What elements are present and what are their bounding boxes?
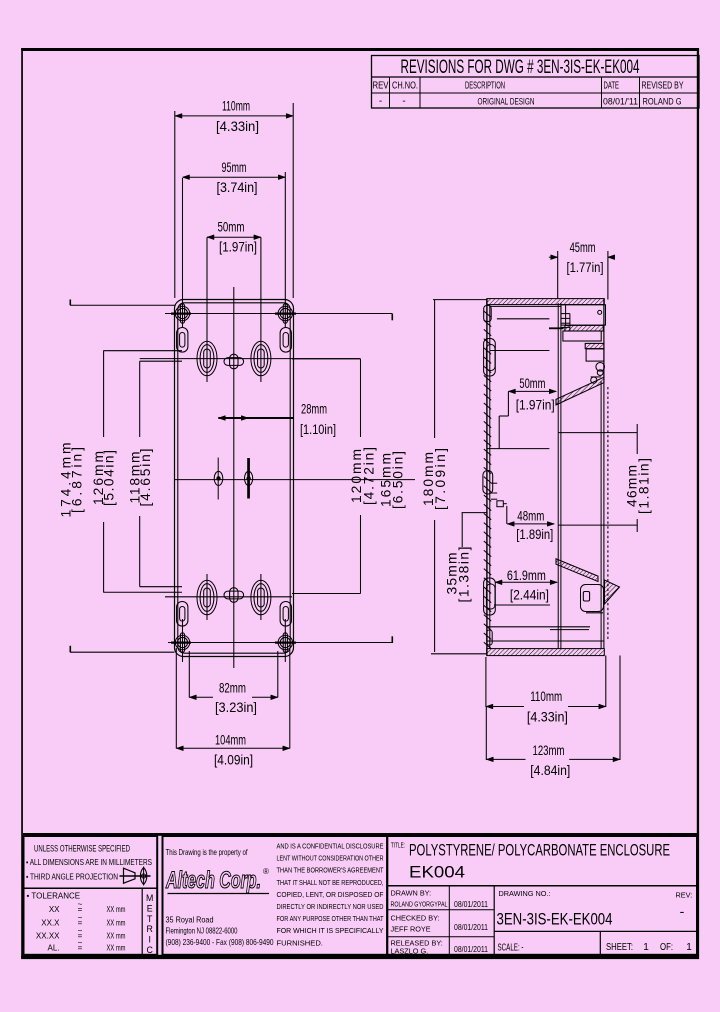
- svg-text:REV: REV: [373, 81, 389, 92]
- dimension 120mm bottom extension: [292, 593, 361, 595]
- revisions table column line REVISED BY: [639, 77, 641, 108]
- lower oval horizontal centerline: [165, 596, 292, 598]
- svg-text:110mm: 110mm: [222, 99, 250, 114]
- title box row line scale: [494, 930, 697, 932]
- svg-text:I: I: [148, 935, 150, 945]
- bottom boss centerline right vertical: [284, 619, 286, 662]
- svg-text:E: E: [147, 903, 153, 913]
- section interior leader line 2: [490, 350, 550, 352]
- svg-text:28mm: 28mm: [301, 402, 327, 417]
- svg-text:®: ®: [263, 867, 269, 876]
- svg-text:[2.44in]: [2.44in]: [510, 588, 549, 603]
- svg-text:T: T: [147, 914, 153, 924]
- dimension 50mm section line: [508, 390, 556, 392]
- svg-text:DATE: DATE: [604, 81, 620, 92]
- side ear upper-right slot: [283, 333, 288, 348]
- section interior stub line: [549, 327, 564, 329]
- revisions table title row line: [372, 76, 700, 78]
- dimension 110mm line: [175, 115, 293, 117]
- svg-text:TITLE:: TITLE:: [391, 843, 405, 850]
- section wall rib tick 3: [491, 498, 497, 500]
- dimension 45mm right extension: [607, 251, 609, 300]
- dimension 180mm line lower segment: [434, 520, 436, 652]
- svg-text:UNLESS OTHERWISE SPECIFIED: UNLESS OTHERWISE SPECIFIED: [34, 844, 130, 855]
- section bottom interior line 2: [487, 640, 604, 642]
- svg-text:XX.XX: XX.XX: [36, 932, 60, 941]
- dimension 165mm bottom tick: [391, 636, 393, 643]
- section interior mid line left step: [498, 416, 500, 449]
- svg-text:61.9mm: 61.9mm: [507, 568, 546, 583]
- top bosses horizontal centerline: [165, 313, 392, 315]
- side ear lower-left slot: [180, 607, 185, 622]
- dimension 45mm line left segment: [549, 256, 558, 258]
- section funnel lower slope hatched: [556, 559, 598, 582]
- dimension 174.4mm bottom extension: [70, 651, 175, 653]
- svg-text:(908) 236-9400 - Fax (908) 806: (908) 236-9400 - Fax (908) 806-9490: [166, 937, 274, 947]
- dimension 118mm top extension: [140, 360, 182, 362]
- svg-text:ROLAND GYORGYPAL: ROLAND GYORGYPAL: [391, 900, 448, 909]
- svg-text:50mm: 50mm: [218, 220, 245, 235]
- svg-text:[3.23in]: [3.23in]: [215, 700, 257, 715]
- svg-text:35 Royal Road: 35 Royal Road: [166, 915, 214, 925]
- section interior top box inner line: [565, 305, 567, 325]
- center hole left vertical line: [217, 458, 219, 500]
- top-right boss thick tick: [275, 313, 296, 315]
- dimension 46mm line upper segment: [636, 424, 638, 454]
- dimension 45mm line right segment: [608, 256, 615, 258]
- left view outer outline: [175, 300, 294, 657]
- svg-text:XX mm: XX mm: [107, 932, 126, 941]
- company box outline: [163, 836, 388, 955]
- svg-text:3EN-3IS-EK-EK004: 3EN-3IS-EK-EK004: [497, 911, 613, 929]
- dimension 48mm leader bracket: [497, 501, 503, 507]
- svg-text:• TOLERANCE: • TOLERANCE: [27, 892, 81, 901]
- border frame right: [697, 48, 699, 959]
- svg-text:FURNISHED.: FURNISHED.: [277, 938, 323, 947]
- dimension 126mm line upper segment: [103, 351, 105, 437]
- dimension 50mm section jog horizontal: [499, 415, 508, 417]
- upper oval left vertical centerline: [206, 237, 208, 382]
- svg-text:Altech Corp.: Altech Corp.: [165, 867, 261, 894]
- dimension 82mm right extension: [277, 651, 279, 698]
- svg-text:CH.NO.: CH.NO.: [392, 81, 418, 92]
- section cover right wall upper outer: [603, 299, 605, 381]
- section base right wall inner line: [557, 303, 559, 649]
- svg-text:[4.65in]: [4.65in]: [138, 449, 153, 507]
- center hole right dot: [247, 477, 250, 480]
- svg-text:• ALL DIMENSIONS ARE IN MILLIM: • ALL DIMENSIONS ARE IN MILLIMETERS: [26, 857, 152, 867]
- top boss centerline right vertical: [284, 172, 286, 327]
- svg-text:• THIRD ANGLE PROJECTION: • THIRD ANGLE PROJECTION: [26, 872, 118, 882]
- section bottom wall hatched band: [487, 649, 605, 656]
- section latch detail circle: [591, 377, 597, 383]
- title block top bar: [23, 833, 697, 836]
- oval hole upper-left slot: [204, 349, 211, 368]
- svg-text:[4.09in]: [4.09in]: [214, 753, 253, 768]
- svg-text:[1.89in]: [1.89in]: [516, 527, 553, 542]
- svg-text:THAN THE BORROWER'S AGREEMENT: THAN THE BORROWER'S AGREEMENT: [277, 866, 384, 875]
- top-left boss thick tick: [171, 313, 191, 315]
- svg-text:[4.33in]: [4.33in]: [527, 710, 568, 725]
- section top wall underside line: [490, 305, 561, 307]
- svg-text:[3.74in]: [3.74in]: [217, 180, 258, 195]
- section bottom interior line 3: [550, 629, 589, 631]
- section interior box D: [586, 349, 604, 361]
- dimension 118mm bottom extension: [140, 586, 182, 588]
- corner screw boss top-right slot: [283, 304, 287, 323]
- corner screw boss bottom-right slot: [283, 633, 287, 652]
- revisions table column line DATE: [601, 77, 603, 108]
- dimension 48mm leader vertical: [506, 506, 508, 524]
- section left wall upper DIN clip outer: [484, 339, 496, 377]
- side ear upper-right outer: [280, 328, 291, 353]
- svg-text:[1.97in]: [1.97in]: [516, 398, 555, 413]
- dimension 174.4mm top extension: [70, 304, 175, 306]
- svg-text:XX mm: XX mm: [107, 919, 126, 928]
- dimension 82mm left extension: [188, 651, 190, 698]
- svg-text:[1.77in]: [1.77in]: [567, 260, 604, 275]
- oval hole upper-left inner ellipse: [200, 345, 214, 373]
- svg-text:08/01/2011: 08/01/2011: [454, 945, 488, 954]
- svg-text:ORIGINAL DESIGN: ORIGINAL DESIGN: [478, 97, 535, 108]
- dimension 126mm top extension: [103, 350, 182, 352]
- section hatched shelf band: [565, 325, 603, 331]
- dimension 35mm extension horizontal: [462, 512, 487, 514]
- dimension 46mm line lower segment: [636, 519, 638, 532]
- title box row line drawn/checked: [387, 909, 494, 911]
- dimension 82mm line left segment: [189, 696, 213, 698]
- dimension 110mm section line right segment: [568, 706, 606, 708]
- tolerance section outer box: [24, 836, 158, 955]
- tolerance metric divider vertical: [141, 888, 143, 955]
- dimension 110mm section left extension: [485, 657, 487, 707]
- left view vertical centerline: [233, 287, 235, 668]
- corner screw boss bottom-left inner circle: [177, 637, 187, 647]
- svg-text:REV:: REV:: [676, 891, 693, 900]
- border frame bottom: [21, 955, 699, 959]
- section top wall hatched band: [487, 299, 605, 305]
- section left wall lower DIN clip inner: [486, 584, 495, 609]
- dimension 180mm top extension: [433, 299, 487, 301]
- title box drawing no divider: [493, 886, 495, 955]
- svg-text:EK004: EK004: [409, 863, 465, 882]
- svg-text:104mm: 104mm: [215, 733, 246, 748]
- dimension 120mm top extension: [292, 358, 361, 360]
- projection symbol target inner circle: [142, 874, 146, 878]
- projection symbol cone: [124, 868, 136, 883]
- svg-text:COPIED, LENT, OR DISPOSED OF: COPIED, LENT, OR DISPOSED OF: [277, 890, 384, 899]
- lower oval left vertical centerline: [206, 574, 208, 620]
- svg-text:C: C: [147, 945, 154, 955]
- title box divider under title: [387, 885, 697, 887]
- section base right wall second line: [560, 303, 562, 649]
- svg-text:-: -: [680, 903, 685, 919]
- svg-text:M: M: [146, 893, 153, 903]
- center hole right ellipse: [245, 471, 253, 485]
- section left wall top clip bump: [484, 306, 492, 322]
- svg-text:1: 1: [643, 942, 649, 953]
- dimension 104mm line: [176, 747, 289, 749]
- dimension 174.4mm top tick: [69, 300, 71, 306]
- oval hole lower-right slot: [258, 588, 265, 607]
- oval hole lower-left slot: [204, 588, 211, 607]
- corner screw boss bottom-right outer circle: [278, 635, 292, 649]
- corner screw boss top-left slot: [180, 304, 184, 323]
- svg-text:08/01/2011: 08/01/2011: [454, 923, 488, 932]
- section funnel upper slope hatched: [556, 377, 604, 405]
- side ear lower-right outer: [280, 602, 291, 627]
- svg-text:LASZLO G.: LASZLO G.: [391, 947, 429, 956]
- left view inner outline: [178, 303, 290, 653]
- oval hole upper-right outer ellipse: [251, 341, 271, 376]
- dimension 104mm right extension: [289, 648, 291, 749]
- center hole left ellipse: [214, 471, 223, 485]
- side ear upper-left slot: [180, 333, 185, 348]
- center cross upper vertical lobe: [230, 354, 238, 369]
- section ladder rung 1: [562, 313, 571, 315]
- dimension 104mm left extension: [175, 648, 177, 749]
- projection symbol vesica: [140, 868, 146, 885]
- svg-text:XX mm: XX mm: [107, 944, 126, 953]
- section wall rib tick 2: [491, 492, 497, 494]
- dimension 48mm line: [507, 523, 554, 525]
- section bottom interior line 4: [494, 604, 550, 606]
- section latch detail top line: [591, 376, 602, 378]
- dimension 28mm line: [218, 417, 293, 419]
- title box names date divider: [448, 886, 450, 955]
- svg-text:OF:: OF:: [660, 942, 673, 953]
- svg-text:95mm: 95mm: [222, 160, 247, 175]
- section left wall hatch ticks: [484, 311, 491, 649]
- svg-text:POLYSTYRENE/ POLYCARBONATE ENC: POLYSTYRENE/ POLYCARBONATE ENCLOSURE: [409, 841, 670, 860]
- svg-text:DIRECTLY OR INDIRECTLY NOR USE: DIRECTLY OR INDIRECTLY NOR USED: [277, 902, 384, 911]
- svg-text:110mm: 110mm: [530, 689, 562, 704]
- dimension 174.4mm bottom tick: [69, 646, 71, 652]
- svg-text:123mm: 123mm: [533, 743, 565, 758]
- svg-text:48mm: 48mm: [517, 509, 544, 524]
- revisions table outline: [372, 56, 700, 109]
- corner screw boss top-right outer circle: [278, 306, 292, 320]
- section left wall upper DIN clip inner: [486, 345, 495, 371]
- svg-text:[4.33in]: [4.33in]: [216, 119, 259, 134]
- dimension 95mm line: [183, 176, 286, 178]
- section DIN hook wedge hatched: [605, 580, 620, 604]
- center cross upper horizontal lobe: [224, 358, 244, 366]
- side ear lower-right slot: [283, 607, 288, 622]
- dimension 61.9mm line: [495, 581, 557, 583]
- svg-text:82mm: 82mm: [219, 681, 246, 696]
- bottom-left boss thick tick: [171, 641, 191, 643]
- corner screw boss bottom-left slot: [180, 633, 184, 652]
- oval hole upper-right inner ellipse: [254, 345, 268, 373]
- svg-text:1: 1: [686, 942, 692, 953]
- dimension 50mm section jog vertical: [507, 391, 509, 416]
- section interior leader line 1: [497, 318, 550, 320]
- svg-text:LENT WITHOUT CONSIDERATION OTH: LENT WITHOUT CONSIDERATION OTHER: [277, 854, 384, 863]
- dimension 126mm line lower segment: [103, 522, 105, 592]
- corner screw boss top-right inner circle: [280, 308, 290, 318]
- svg-text:[4.84in]: [4.84in]: [530, 763, 570, 778]
- dimension 45mm left extension: [557, 251, 559, 299]
- revisions table column line CH.NO.: [419, 77, 421, 108]
- section hatched step: [585, 343, 604, 348]
- corner screw boss bottom-left outer circle: [175, 635, 189, 649]
- section ladder rung 4: [562, 326, 571, 328]
- svg-text:THAT IT SHALL NOT BE REPRODUCE: THAT IT SHALL NOT BE REPRODUCED,: [277, 878, 384, 887]
- oval hole lower-left outer ellipse: [197, 580, 217, 615]
- svg-text:REVISED BY: REVISED BY: [642, 81, 684, 92]
- side ear lower-left outer: [177, 602, 188, 627]
- dimension 46mm top extension: [558, 432, 637, 434]
- title box outline: [387, 836, 697, 955]
- section interior mid line: [487, 448, 549, 450]
- section screw head inner circle: [597, 370, 603, 376]
- dimension 110mm section right extension: [605, 656, 607, 708]
- dimension 118mm line upper segment: [139, 361, 141, 437]
- dimension 110mm section line left segment: [486, 706, 524, 708]
- upper oval horizontal centerline: [140, 358, 361, 360]
- revisions table header row line: [372, 92, 700, 94]
- svg-text:ROLAND G: ROLAND G: [643, 97, 682, 108]
- top boss centerline left vertical: [182, 178, 184, 327]
- center hole left dot: [217, 477, 220, 480]
- svg-text:CHECKED BY:: CHECKED BY:: [391, 914, 440, 923]
- section left wall inner line: [489, 305, 491, 649]
- center cross lower vertical lobe: [230, 588, 238, 603]
- dimension 123mm line right segment: [569, 758, 620, 760]
- dimension 50mm line: [207, 236, 261, 238]
- section bottom interior line 1: [487, 626, 590, 628]
- section DIN hook window: [583, 592, 589, 602]
- projection symbol axis line: [120, 875, 151, 877]
- dimension 110mm right extension: [292, 103, 294, 298]
- section ladder rung 2: [562, 317, 571, 319]
- svg-text:08/01/2011: 08/01/2011: [454, 900, 488, 909]
- oval hole lower-right outer ellipse: [251, 580, 271, 615]
- dimension 48mm leader horizontal: [503, 503, 507, 505]
- section left wall middle clip: [483, 471, 493, 495]
- svg-text:AND IS A CONFIDENTIAL DISCLOSU: AND IS A CONFIDENTIAL DISCLOSURE: [277, 842, 384, 851]
- dimension 46mm bottom extension: [558, 524, 637, 526]
- dimension 82mm line right segment: [252, 696, 278, 698]
- svg-text:-: -: [379, 96, 382, 107]
- section left wall lower DIN clip outer: [484, 578, 496, 615]
- section ladder vertical: [569, 314, 571, 331]
- svg-text:45mm: 45mm: [570, 240, 596, 255]
- dimension 165mm top tick: [391, 314, 393, 321]
- svg-text:FOR WHICH IT IS SPECIFICALLY: FOR WHICH IT IS SPECIFICALLY: [277, 926, 384, 935]
- section interior top box pin mark: [598, 310, 602, 314]
- svg-text:DRAWN BY:: DRAWN BY:: [391, 889, 432, 898]
- svg-text:R: R: [147, 924, 153, 934]
- border frame left: [21, 48, 23, 959]
- svg-text:XX.X: XX.X: [41, 919, 60, 928]
- svg-text:50mm: 50mm: [519, 376, 545, 391]
- section wall rib tick 1: [491, 482, 497, 484]
- section cover hidden edge dotted: [607, 387, 609, 641]
- svg-text:08/01/'11: 08/01/'11: [603, 97, 638, 108]
- section cover channel left line: [600, 381, 602, 649]
- svg-text:FOR ANY PURPOSE OTHER THAN THA: FOR ANY PURPOSE OTHER THAN THAT: [277, 914, 384, 923]
- dimension 110mm left extension: [174, 111, 176, 298]
- section DIN hook C-profile: [581, 585, 604, 612]
- revisions table column line REV: [389, 77, 391, 108]
- svg-text:[1.97in]: [1.97in]: [219, 240, 257, 255]
- svg-text:XX mm: XX mm: [107, 905, 126, 914]
- svg-text:SHEET:: SHEET:: [606, 942, 633, 953]
- dimension 35mm line: [461, 513, 463, 547]
- dimension 126mm bottom extension: [103, 591, 182, 593]
- bottom bosses horizontal centerline: [168, 642, 392, 644]
- svg-text:DESCRIPTION: DESCRIPTION: [465, 81, 505, 92]
- corner screw boss top-left outer circle: [175, 306, 189, 320]
- section screw head outer circle: [596, 363, 605, 372]
- corner screw boss top-left inner circle: [177, 308, 187, 318]
- title box scale sheet divider: [599, 931, 601, 954]
- svg-text:REVISIONS FOR DWG # 3EN-3IS-EK: REVISIONS FOR DWG # 3EN-3IS-EK-EK004: [401, 57, 640, 78]
- dimension 123mm left extension: [485, 707, 487, 760]
- dimension 123mm right extension: [619, 656, 621, 761]
- center hole right slot bar: [247, 458, 250, 499]
- svg-text:SCALE: -: SCALE: -: [498, 943, 524, 954]
- projection symbol target vertical line: [143, 867, 145, 886]
- dimension 123mm line left segment: [486, 758, 525, 760]
- bottom-right boss thick tick: [275, 641, 296, 643]
- dimension 118mm line lower segment: [139, 516, 141, 587]
- svg-text:JEFF ROYE: JEFF ROYE: [391, 925, 431, 934]
- svg-text:This Drawing is the property o: This Drawing is the property of: [166, 847, 249, 857]
- center cross lower horizontal lobe: [224, 591, 244, 599]
- svg-text:XX: XX: [49, 905, 60, 914]
- tolerance section divider horizontal: [24, 887, 158, 889]
- section ladder rung 3: [562, 322, 571, 324]
- section DIN hook lower lip: [586, 612, 603, 614]
- svg-text:AL.: AL.: [47, 944, 59, 953]
- section left wall outer line: [486, 299, 488, 656]
- corner screw boss bottom-right inner circle: [280, 637, 290, 647]
- upper oval right vertical centerline: [260, 237, 262, 382]
- middle holes horizontal centerline: [175, 479, 415, 481]
- title box row line checked/released: [387, 936, 494, 938]
- svg-text:DRAWING NO.:: DRAWING NO.:: [499, 889, 551, 898]
- svg-text:-: -: [402, 96, 405, 107]
- svg-text:=: =: [78, 944, 83, 953]
- border frame top: [21, 48, 699, 51]
- dimension 180mm bottom extension: [431, 653, 487, 655]
- dimension 120mm line lower segment: [360, 515, 362, 594]
- svg-text:Flemington NJ 08822-6000: Flemington NJ 08822-6000: [166, 926, 238, 936]
- section interior box B: [563, 331, 601, 341]
- svg-text:[1.10in]: [1.10in]: [300, 422, 336, 437]
- svg-text:[6.87in]: [6.87in]: [69, 447, 84, 513]
- section left wall bottom notch: [487, 630, 492, 645]
- oval hole lower-left inner ellipse: [200, 584, 214, 612]
- section cover channel right line: [603, 381, 605, 649]
- bottom boss centerline left vertical: [182, 619, 184, 662]
- altech logo underline: [168, 893, 270, 895]
- section interior top box outline: [561, 305, 606, 325]
- dimension 120mm line upper segment: [360, 359, 362, 437]
- oval hole upper-right slot: [258, 349, 265, 368]
- lower oval right vertical centerline: [260, 574, 262, 620]
- oval hole upper-left outer ellipse: [197, 341, 217, 376]
- dimension 180mm line upper segment: [434, 300, 436, 438]
- oval hole lower-right inner ellipse: [254, 584, 268, 612]
- side ear upper-left outer: [177, 328, 188, 353]
